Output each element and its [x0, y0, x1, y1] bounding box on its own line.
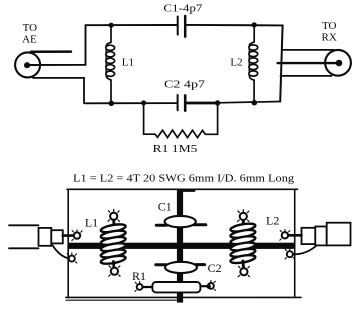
- resistor R1 (zigzag, parallel loop around C2): [144, 103, 218, 138]
- svg-text:AE: AE: [22, 34, 37, 46]
- svg-text:RX: RX: [322, 32, 337, 44]
- wire top rail left segment: [86, 24, 178, 26]
- node L2 top eyelet: [238, 210, 249, 222]
- wire J1 shield to bottom rail: [33, 78, 84, 103]
- node left pin eyelet: [72, 230, 82, 241]
- wire left coax centre pin: [63, 234, 74, 237]
- node L2 bottom (junction dot): [252, 100, 258, 106]
- inductor L2: [249, 25, 258, 103]
- svg-text:L1: L1: [122, 56, 134, 68]
- svg-text:R1 1M5: R1 1M5: [153, 143, 199, 155]
- connector J1 (AE coax socket): [15, 52, 71, 78]
- node L2 bottom eyelet: [238, 265, 249, 277]
- wire right vertical (top rail to bottom rail): [280, 25, 282, 101]
- capacitor C1: [178, 16, 186, 37]
- node L1 bottom eyelet: [109, 264, 120, 276]
- svg-text:C1: C1: [158, 199, 172, 213]
- node top of L1 (junction dot): [109, 23, 114, 28]
- wire J2 centre pin line: [278, 62, 336, 64]
- node right shield eyelet: [285, 249, 295, 259]
- wire J2 top tangent: [283, 49, 334, 51]
- node R1 right eyelet: [206, 280, 215, 290]
- board outline (bottom layout): [66, 189, 301, 300]
- node right pin eyelet: [280, 230, 290, 241]
- node R1 right (junction dot): [215, 100, 220, 105]
- connector right coax plug and cable: [302, 223, 351, 246]
- inductor L1: [106, 25, 115, 103]
- label TO AE (left antenna terminal): [22, 22, 37, 46]
- inductor L1 (physical coil): [100, 220, 126, 267]
- node R1 left (junction dot): [141, 100, 146, 105]
- wire J1 centre pin to top rail: [31, 25, 86, 65]
- svg-text:C2 4p7: C2 4p7: [164, 78, 206, 90]
- node top of L2 (junction dot): [252, 22, 257, 27]
- capacitor C2: [178, 95, 186, 111]
- svg-text:C2: C2: [208, 261, 222, 275]
- capacitor C1 (disc, layout): [156, 216, 206, 227]
- connector J2 (RX coax plug): [325, 50, 351, 76]
- wire right shield lead: [293, 246, 317, 255]
- svg-text:TO: TO: [23, 22, 38, 34]
- connector left coax cable and plug: [9, 225, 63, 248]
- node L1 bottom (junction dot): [109, 101, 115, 107]
- node L1 top eyelet: [108, 209, 119, 221]
- wire bottom rail mid thick segment: [186, 102, 218, 105]
- svg-text:L2: L2: [230, 56, 242, 68]
- inductor L2 (physical coil): [230, 220, 256, 268]
- resistor R1 (body, layout): [140, 282, 211, 292]
- wire top rail right segment: [185, 24, 282, 27]
- svg-text:L1: L1: [85, 215, 98, 229]
- svg-text:C1-4p7: C1-4p7: [163, 2, 203, 14]
- wire centre tie bar (thick vertical trace): [177, 190, 183, 303]
- node left shield eyelet: [67, 253, 77, 263]
- wire bottom rail left segment: [85, 102, 177, 104]
- capacitor C2 (disc, layout): [156, 262, 205, 273]
- svg-text:R1: R1: [132, 269, 146, 283]
- wire bottom rail right segment: [218, 102, 280, 103]
- node bar-top solder tick: [184, 190, 195, 192]
- wire J2 bottom tangent: [281, 75, 332, 77]
- wire right coax centre pin: [288, 234, 302, 237]
- label TO RX (right receiver terminal): [322, 20, 337, 43]
- svg-text:L1 = L2 = 4T 20 SWG 6mm I/D. 6: L1 = L2 = 4T 20 SWG 6mm I/D. 6mm Long: [73, 172, 295, 184]
- wire earth bus bar (thick horizontal trace): [68, 243, 295, 249]
- node R1 left eyelet: [135, 281, 143, 291]
- svg-text:TO: TO: [322, 20, 337, 32]
- wire left shield lead: [53, 245, 69, 258]
- svg-text:L2: L2: [266, 213, 279, 227]
